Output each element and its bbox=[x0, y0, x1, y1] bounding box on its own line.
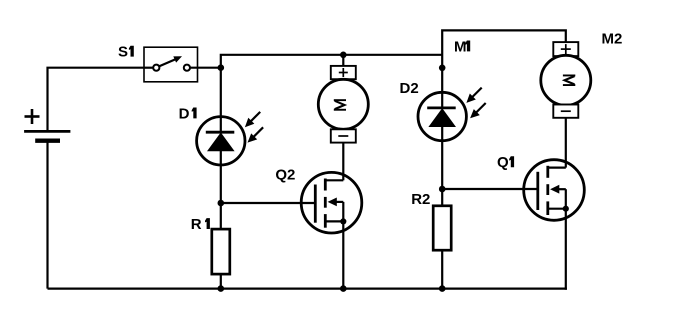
motor M2 bbox=[541, 31, 623, 118]
junction dot R1 bottom rail bbox=[218, 285, 225, 292]
resistor R2 bbox=[411, 191, 451, 250]
svg-text:M: M bbox=[454, 38, 467, 55]
svg-text:R2: R2 bbox=[411, 191, 430, 208]
svg-text:R: R bbox=[191, 216, 202, 233]
junction dot R2 bottom rail bbox=[439, 285, 446, 292]
svg-text:M2: M2 bbox=[602, 31, 623, 48]
light arrow 1 into D2 bbox=[466, 88, 481, 103]
wire M1 to Q2 drain bbox=[342, 143, 344, 181]
junction dot Q2 source bottom rail bbox=[340, 285, 347, 292]
wire Q2 source to bottom rail bbox=[342, 221, 344, 288]
battery B1 bbox=[24, 109, 70, 141]
svg-text:Q: Q bbox=[497, 154, 509, 171]
wire M1 node vertical and top-right rail to M2 bbox=[442, 30, 566, 92]
junction dot M1 top bbox=[340, 52, 347, 59]
wire top-left horizontal from battery to S1 bbox=[48, 68, 145, 132]
bottom rail wire bbox=[48, 288, 567, 290]
svg-text:D: D bbox=[179, 105, 190, 122]
wire R2 to bottom rail bbox=[441, 250, 443, 288]
svg-text:D2: D2 bbox=[400, 80, 419, 97]
light arrow 2 into D1 bbox=[248, 127, 264, 142]
light arrow 1 into D1 bbox=[245, 112, 260, 127]
node A junction dot bbox=[218, 64, 225, 71]
wire S1 to node A bbox=[190, 67, 221, 69]
wire R1 to bottom rail bbox=[220, 274, 222, 289]
mosfet Q1 bbox=[497, 154, 584, 220]
junction dot D1/R1/Q2 gate bbox=[218, 200, 225, 207]
svg-text:Q2: Q2 bbox=[275, 167, 295, 184]
light arrow 2 into D2 bbox=[470, 103, 486, 118]
wire node A down through D1 to R1 bbox=[220, 68, 222, 229]
wire gate of Q1 bbox=[442, 188, 539, 190]
mosfet Q2 bbox=[275, 167, 361, 233]
switch S1 bbox=[118, 44, 198, 82]
resistor R1 bbox=[191, 216, 230, 274]
wire Q1 source to bottom rail bbox=[565, 209, 567, 290]
motor M1 bbox=[318, 66, 368, 143]
wire battery negative to bottom rail bbox=[46, 141, 48, 289]
photodiode D2 bbox=[400, 80, 467, 141]
svg-text:S: S bbox=[118, 44, 128, 61]
wire gate of Q2 bbox=[221, 202, 317, 204]
photodiode D1 bbox=[179, 105, 245, 165]
junction dot D2/R2/Q1 gate bbox=[439, 186, 446, 193]
wire node A up and right to M1 rail bbox=[221, 55, 442, 68]
junction dot below M1 node bbox=[439, 65, 446, 72]
wire M1 top bbox=[342, 55, 344, 66]
wire D2 to R2 bbox=[441, 141, 443, 206]
wire M2 to Q1 drain bbox=[565, 118, 567, 168]
